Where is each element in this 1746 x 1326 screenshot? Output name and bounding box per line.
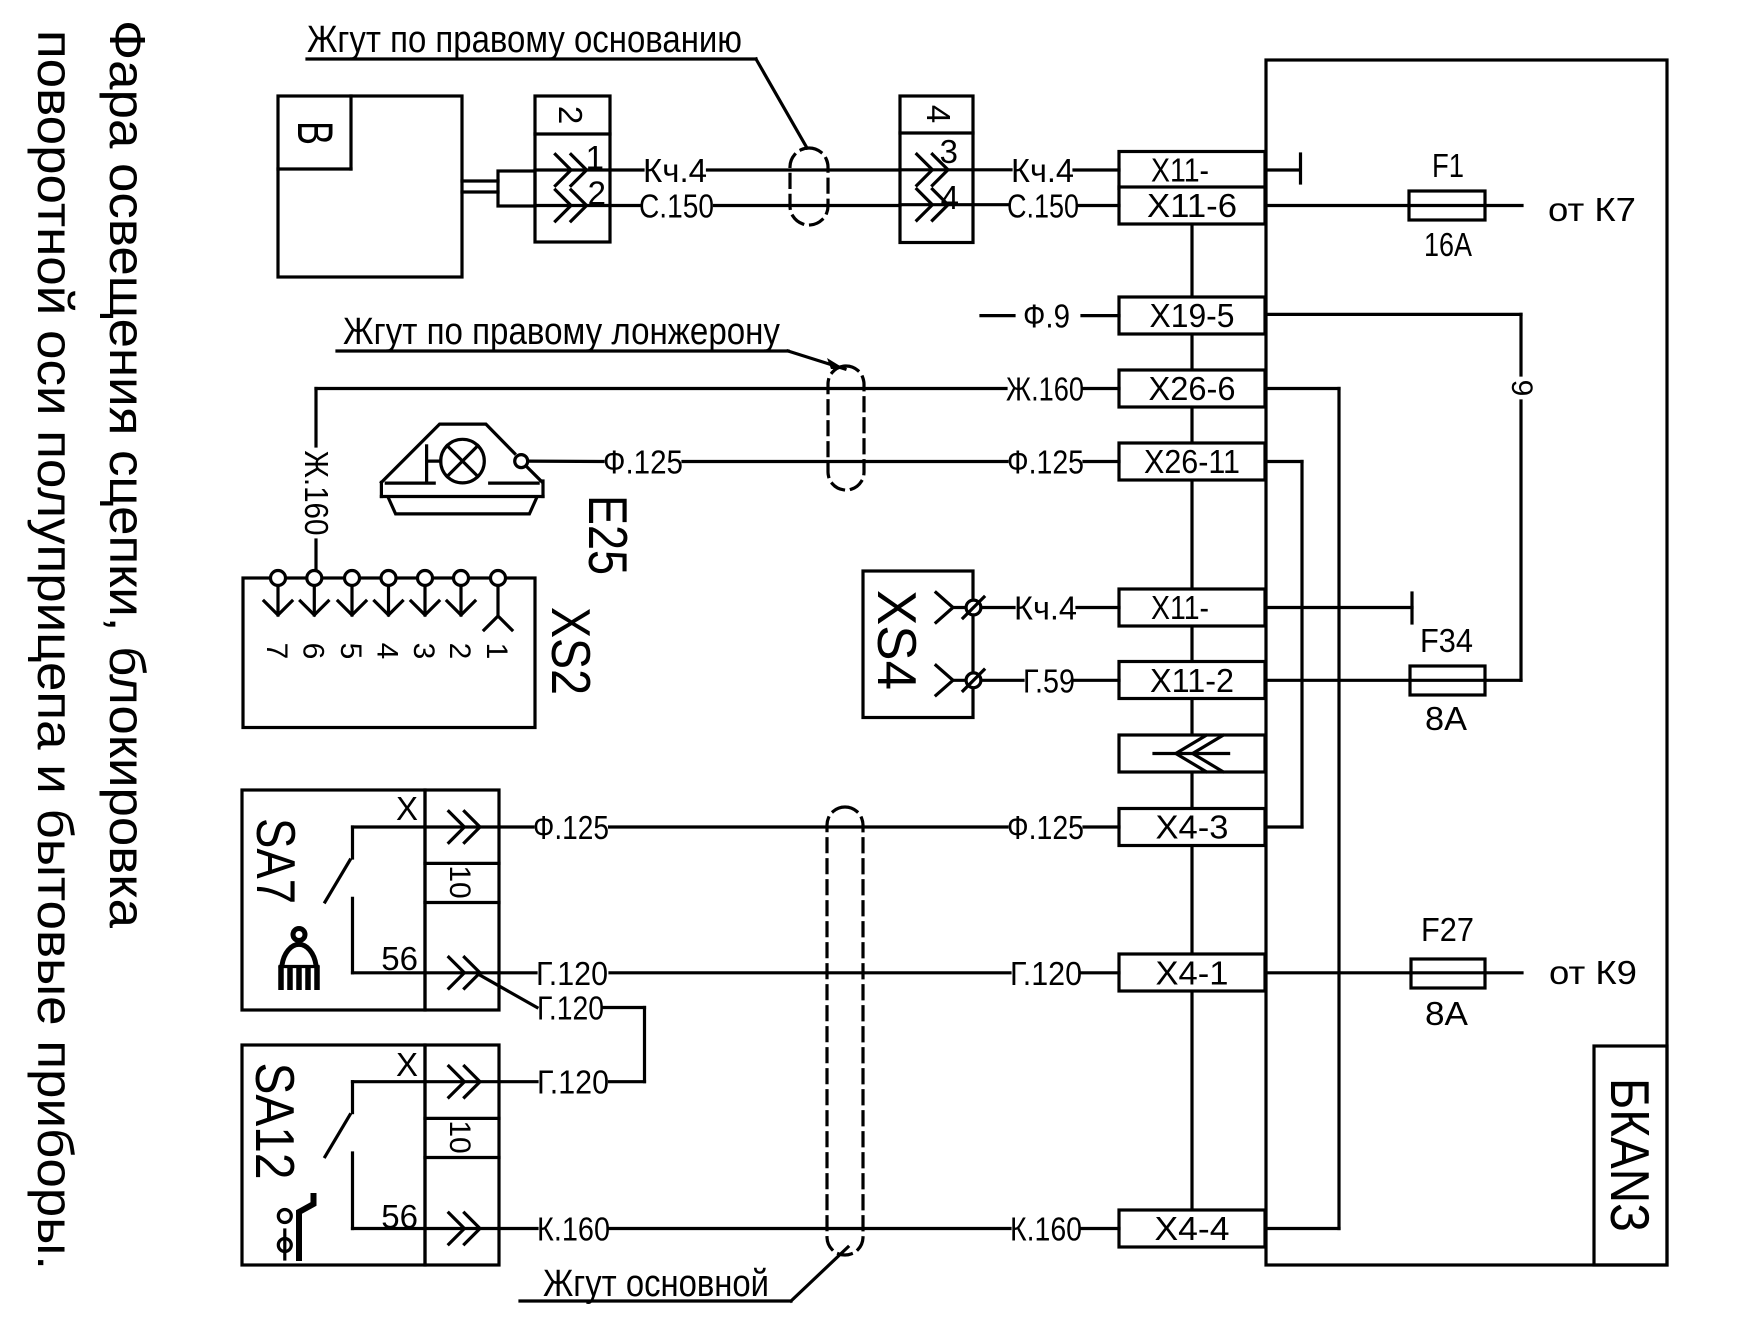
svg-text:В: В: [287, 121, 343, 145]
svg-text:2: 2: [552, 106, 589, 124]
svg-text:Кч.4: Кч.4: [1011, 152, 1074, 189]
svg-text:XS4: XS4: [866, 590, 928, 690]
svg-text:6: 6: [296, 643, 329, 660]
svg-text:8А: 8А: [1425, 700, 1467, 737]
svg-text:Жгут основной: Жгут основной: [543, 1263, 769, 1305]
svg-text:БКАNЗ: БКАNЗ: [1599, 1078, 1661, 1232]
svg-text:Жгут по правому лонжерону: Жгут по правому лонжерону: [343, 311, 780, 353]
svg-text:Х: Х: [396, 790, 418, 827]
svg-text:С.150: С.150: [1007, 188, 1079, 225]
svg-text:F34: F34: [1420, 622, 1473, 659]
svg-text:1: 1: [480, 643, 513, 660]
svg-text:Кч.4: Кч.4: [643, 152, 707, 189]
svg-text:Х4-4: Х4-4: [1155, 1210, 1230, 1247]
svg-text:Г.120: Г.120: [537, 1064, 609, 1101]
svg-text:Г.120: Г.120: [536, 955, 608, 992]
svg-text:Х11-2: Х11-2: [1150, 662, 1234, 699]
svg-text:4: 4: [920, 105, 957, 123]
svg-text:Х11-: Х11-: [1151, 589, 1209, 626]
svg-text:Х26-6: Х26-6: [1149, 370, 1236, 407]
svg-text:Х11-: Х11-: [1151, 152, 1209, 189]
svg-text:поворотной оси полуприцепа и б: поворотной оси полуприцепа и бытовые при…: [27, 30, 83, 1270]
svg-text:9: 9: [1505, 380, 1538, 397]
svg-text:7: 7: [260, 643, 293, 660]
svg-text:К.160: К.160: [1010, 1211, 1082, 1248]
svg-text:К.160: К.160: [537, 1211, 610, 1248]
svg-text:Ж.160: Ж.160: [1006, 371, 1084, 408]
svg-text:Кч.4: Кч.4: [1014, 590, 1077, 627]
svg-text:10: 10: [443, 865, 476, 898]
svg-text:Ф.125: Ф.125: [603, 444, 683, 481]
svg-text:Г.120: Г.120: [537, 990, 604, 1027]
svg-text:E25: E25: [577, 495, 639, 575]
svg-text:10: 10: [443, 1120, 476, 1153]
svg-text:2: 2: [443, 643, 476, 660]
svg-text:4: 4: [371, 643, 404, 660]
svg-text:3: 3: [407, 643, 440, 660]
svg-text:С.150: С.150: [639, 188, 714, 225]
svg-text:Жгут по правому основанию: Жгут по правому основанию: [307, 19, 742, 61]
svg-text:Ф.9: Ф.9: [1023, 298, 1070, 335]
svg-text:Ф.125: Ф.125: [1007, 809, 1084, 846]
svg-text:5: 5: [334, 643, 367, 660]
svg-text:Х4-3: Х4-3: [1156, 809, 1229, 846]
svg-text:XS2: XS2: [540, 607, 602, 695]
svg-text:Ж.160: Ж.160: [298, 451, 335, 536]
svg-text:Ф.125: Ф.125: [533, 809, 609, 846]
svg-text:от К7: от К7: [1548, 191, 1636, 228]
svg-text:Г.120: Г.120: [1010, 955, 1082, 992]
svg-text:Х11-6: Х11-6: [1147, 187, 1237, 224]
svg-text:16А: 16А: [1424, 226, 1472, 263]
svg-text:4: 4: [941, 179, 959, 216]
svg-text:Х4-1: Х4-1: [1156, 954, 1229, 991]
svg-text:Ф.125: Ф.125: [1007, 444, 1084, 481]
svg-text:SA7: SA7: [245, 818, 307, 904]
svg-text:Х: Х: [396, 1046, 418, 1083]
svg-text:Фара освещения сцепки, блокиро: Фара освещения сцепки, блокировка: [99, 20, 155, 928]
svg-text:8А: 8А: [1425, 995, 1468, 1032]
svg-text:Х19-5: Х19-5: [1150, 297, 1235, 334]
svg-text:от К9: от К9: [1549, 954, 1637, 991]
svg-text:SA12: SA12: [244, 1063, 306, 1180]
svg-text:F27: F27: [1421, 911, 1474, 948]
svg-text:F1: F1: [1432, 147, 1464, 184]
svg-text:Х26-11: Х26-11: [1144, 443, 1240, 480]
svg-text:3: 3: [940, 133, 958, 170]
svg-text:Г.59: Г.59: [1023, 662, 1075, 699]
